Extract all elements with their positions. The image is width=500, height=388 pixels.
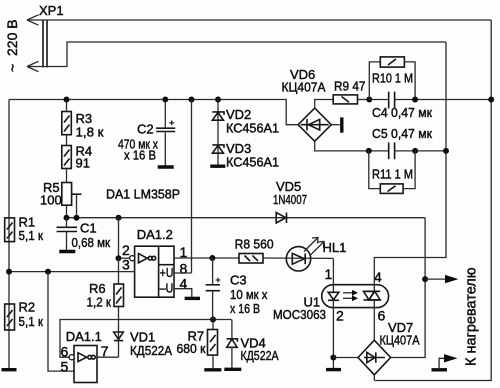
node dot C3 R7 [210,317,216,323]
wire VD5 rail down [424,218,426,279]
svg-text:х 16 В: х 16 В [230,301,260,316]
ground bottom-left [2,368,17,371]
wire U1 pin2 down [332,308,334,369]
resistor R11 [369,151,415,194]
svg-text:КС456А1: КС456А1 [226,155,279,170]
node dot C5 right [412,148,418,154]
node dot pin2 [116,255,122,261]
wire VD7 bottom [373,375,375,381]
bridge rectifier VD7 [358,340,391,375]
resistor R3 [62,112,72,135]
zener VD4 [227,320,238,369]
wire pin8 [174,272,192,274]
capacitor C5 [389,142,446,159]
svg-text:91: 91 [76,156,90,171]
svg-text:1N4007: 1N4007 [273,192,307,207]
svg-text:КЦ407А: КЦ407А [282,80,326,95]
optocoupler U1 [322,285,389,308]
capacitor C2 [156,100,175,166]
arrow XP1 top [27,15,39,25]
node dot C5 left [366,148,372,154]
resistor R5 trimmer [62,183,82,206]
node dot pin2 VD7 [330,355,336,361]
wire pin2 to VD7 left [333,357,358,359]
wire pin2 node [119,257,131,259]
arrow heater bottom [439,354,457,368]
svg-text:XP1: XP1 [39,3,64,18]
arrow XP1 bottom [27,61,39,71]
wire pin7 [97,356,119,358]
svg-text:8: 8 [180,261,188,277]
ground C1 [59,250,75,253]
node dot rail 446 [443,148,449,154]
node dot R1 R2 junction [6,269,12,275]
wire pin1 output [174,257,239,259]
resistor R4 [62,146,72,169]
op-amp DA1.1 [69,346,97,383]
resistor R2 [5,304,15,330]
svg-text:7: 7 [101,343,109,359]
ground heater bottom [432,368,448,371]
resistor R7 [208,320,218,369]
svg-text:3: 3 [122,257,130,273]
ground DA1.2 pin4 [185,297,200,300]
capacitor C1 [57,218,78,251]
connector XP1 [43,20,47,68]
wire R9 right [358,99,370,101]
svg-text:КС456А1: КС456А1 [226,121,279,136]
svg-text:5,1 к: 5,1 к [19,228,44,243]
svg-text:220 В: 220 В [4,19,20,56]
resistor R1 [5,218,15,242]
node dot pin8 riser top [189,97,195,103]
svg-text:5,1 к: 5,1 к [19,314,44,329]
resistor R10 [369,57,415,100]
svg-text:10 мк х: 10 мк х [230,287,268,302]
wire R3 chain column [66,100,68,218]
ground U1 pin2 [326,368,341,371]
wire top 220V line [27,19,491,21]
svg-text:1,2 к: 1,2 к [87,295,112,310]
svg-text:C3: C3 [230,273,247,288]
wire VD6 right [331,124,340,126]
svg-text:C4 0,47 мк: C4 0,47 мк [372,105,432,120]
node dot R9 C4 [366,97,372,103]
wire R8 to HL1 [263,257,333,259]
resistor R9 [333,95,357,104]
wire pin5 riser [48,272,74,372]
op-amp DA1.2 [130,246,174,297]
wire left rail [8,100,10,370]
svg-text:КД522А: КД522А [130,343,172,358]
node dot heater top [422,276,428,282]
svg-text:C2: C2 [137,122,154,137]
svg-text:R10 1 М: R10 1 М [372,71,413,86]
svg-text:1: 1 [325,266,333,282]
svg-text:R9 47: R9 47 [334,79,366,94]
capacitor C4 [369,92,491,109]
svg-text:~: ~ [5,64,21,72]
wire U1 pin1 riser [332,258,334,284]
ground VD4 [224,368,241,371]
wire pin4 U1 rail [374,42,446,285]
diode VD5 [276,213,286,224]
node dot outer rail [488,97,494,103]
capacitor C3 [206,258,221,320]
ground VD6 right bar [340,117,343,132]
svg-text:R2: R2 [19,300,36,315]
wire R5 wiper riser [76,194,78,218]
wire top rail [9,100,298,125]
wire VD6 bottom [315,141,389,151]
node dot VD2 top [215,97,221,103]
wire pin2 riser [118,218,120,259]
wire VD2 VD3 column [217,100,219,166]
zener VD3 [212,145,224,153]
bridge rectifier VD6 [298,108,331,141]
svg-text:К нагревателю: К нагревателю [464,267,480,366]
wire VD7 right [391,279,426,357]
svg-text:R8 560: R8 560 [235,237,274,252]
arrow heater top [425,275,458,283]
svg-text:R11 1 М: R11 1 М [372,167,413,182]
wire pin4 to ground [174,289,192,297]
svg-text:680 к: 680 к [177,341,206,356]
svg-text:HL1: HL1 [323,240,347,255]
wire pin8 riser [191,100,193,274]
arrows HL1 [304,238,324,256]
resistor R8 [239,254,263,264]
node dot output C3 [209,255,215,261]
svg-text:6: 6 [61,344,69,360]
svg-text:C1: C1 [80,221,97,236]
wire R6 VD1 column [118,258,120,357]
svg-text:DA1.1: DA1.1 [66,329,102,344]
diode VD1 [114,332,124,341]
LED HL1 [286,247,310,271]
svg-text:DA1 LM358P: DA1 LM358P [106,187,180,202]
ground C2 [158,165,174,168]
svg-text:КЦ407А: КЦ407А [380,333,420,348]
resistor R6 [114,284,124,307]
node dot pin5 riser [45,269,51,275]
svg-text:C5 0,47 мк: C5 0,47 мк [372,126,432,141]
svg-text:+U: +U [160,266,174,280]
svg-text:0,68 мк: 0,68 мк [72,235,111,250]
svg-text:2: 2 [336,308,344,324]
svg-text:100: 100 [40,193,62,208]
ground R7 [204,368,221,371]
wire pin3 input rail [9,271,135,273]
svg-text:MOC3063: MOC3063 [273,307,326,322]
svg-text:5: 5 [61,359,69,375]
wire U1 pin6 down [373,308,375,341]
svg-text:х 16 В: х 16 В [124,148,156,163]
svg-text:6: 6 [378,308,386,324]
svg-text:DA1.2: DA1.2 [137,227,173,242]
wire outer right rail [375,20,492,381]
node dot C4 right [412,97,418,103]
node dot C2 top [162,97,168,103]
wire second 220V line [27,42,446,67]
svg-text:КД522А: КД522А [241,348,279,363]
svg-text:4: 4 [374,269,382,285]
wire mid rail [67,217,426,219]
node dots mid rail [64,215,70,221]
zener VD2 [212,112,224,120]
svg-text:1,8 к: 1,8 к [76,125,104,140]
wire VD6 top to R9 [315,100,334,109]
svg-text:–U: –U [160,282,174,296]
wire pin6 rail [60,320,232,358]
ground VD3 [210,164,225,167]
node dot R3 top [64,97,70,103]
